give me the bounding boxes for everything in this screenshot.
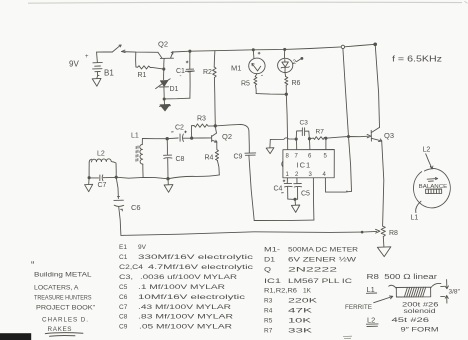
svg-text:L2: L2	[97, 151, 105, 158]
svg-text:D1: D1	[170, 86, 179, 93]
label arrow D2	[296, 57, 303, 61]
svg-text:-: -	[180, 74, 182, 80]
svg-text:1: 1	[286, 172, 290, 178]
book reference text	[31, 260, 95, 333]
svg-text:33K: 33K	[288, 328, 313, 335]
svg-text:C3,: C3,	[119, 274, 133, 281]
node R2/R3/collector junction	[214, 125, 216, 127]
wire R5 bottom to R6 bottom	[256, 93, 286, 96]
capacitor C7	[89, 175, 116, 181]
wire Vcc junction down to pin4 loop	[343, 49, 352, 192]
svg-text:330Mf/16V electrolytic: 330Mf/16V electrolytic	[138, 254, 254, 261]
svg-text:Building METAL: Building METAL	[34, 272, 92, 279]
resistor R6	[285, 73, 288, 95]
svg-text:“: “	[31, 260, 34, 271]
node Vcc/Q3 base wire junction	[347, 135, 349, 137]
node C2/R3/base junction	[191, 137, 193, 139]
node C1 top	[189, 50, 191, 52]
svg-text:47K: 47K	[288, 308, 313, 315]
wire pin5 riser	[325, 138, 327, 149]
wire R1 tap down	[135, 52, 137, 67]
svg-text:220K: 220K	[288, 298, 318, 305]
svg-text:10K: 10K	[288, 318, 312, 325]
svg-text:FERRITE: FERRITE	[345, 304, 372, 311]
svg-text:C6: C6	[119, 294, 128, 301]
wire junction up to R3	[190, 126, 192, 138]
svg-text:L2: L2	[367, 316, 375, 325]
svg-text:R4: R4	[264, 308, 273, 315]
svg-text:E1: E1	[119, 244, 127, 251]
svg-text:L1: L1	[411, 215, 419, 222]
capacitor C2	[167, 131, 192, 142]
ground below D1	[159, 99, 170, 111]
svg-text:LOCATERS, A: LOCATERS, A	[34, 285, 79, 292]
svg-text:C2,C4: C2,C4	[119, 264, 143, 271]
svg-text:C9: C9	[119, 324, 128, 331]
wire C6 to R8 wiper (long)	[121, 232, 362, 236]
svg-text:6V ZENER ½W: 6V ZENER ½W	[288, 256, 357, 264]
ground at pin 7	[266, 139, 274, 153]
zener D2 in circle	[278, 49, 293, 72]
svg-text:IC1: IC1	[297, 161, 312, 170]
scan artifact bottom smudge	[343, 336, 352, 338]
svg-text:9″ FORM: 9″ FORM	[401, 327, 439, 334]
svg-text:Q3: Q3	[384, 131, 394, 140]
parts list capacitors	[119, 244, 254, 331]
wire battery to switch	[97, 51, 113, 53]
wire C9 bottom to pin3	[254, 219, 314, 222]
capacitor C5	[294, 178, 302, 199]
node D2 top rail	[284, 48, 286, 50]
wire R8 to ground	[382, 237, 385, 247]
svg-text:.43 Mf/100V MYLAR: .43 Mf/100V MYLAR	[138, 304, 231, 311]
meter M1	[249, 50, 265, 76]
svg-text:9V: 9V	[138, 244, 147, 251]
svg-text:R1: R1	[138, 72, 147, 79]
ferrite core dashes for L1	[136, 146, 138, 163]
zener diode D1	[156, 79, 171, 99]
node R1/D1/base junction	[163, 68, 165, 70]
wire oscillator bottom rail	[116, 175, 219, 179]
wire junction to C9 bend	[215, 124, 249, 152]
svg-text:B1: B1	[104, 69, 114, 78]
wire rail to far right node	[345, 44, 376, 47]
inductor L1	[140, 139, 143, 178]
node C4/C5 ground junction	[294, 198, 296, 200]
capacitor C9	[245, 153, 256, 221]
underline L1 note	[366, 292, 376, 294]
underline RAKES	[45, 333, 83, 337]
svg-text:solenoid: solenoid	[404, 308, 436, 315]
svg-text:C5: C5	[301, 191, 310, 198]
node L2 right / C6 junction	[115, 176, 117, 178]
svg-text:R6: R6	[292, 80, 301, 87]
svg-text:3/8″: 3/8″	[449, 289, 461, 296]
wire L1 top to C2	[142, 138, 167, 140]
svg-text:1K: 1K	[303, 288, 312, 295]
node Vcc rail open junction	[341, 45, 344, 48]
svg-text:R7: R7	[264, 328, 273, 335]
wire pin7 riser	[295, 139, 298, 150]
svg-text:.1 Mf/100V MYLAR: .1 Mf/100V MYLAR	[138, 284, 225, 291]
svg-text:C7: C7	[119, 304, 128, 311]
svg-text:+: +	[85, 54, 89, 60]
inductor L2	[89, 159, 116, 178]
wire base node to D1	[163, 69, 165, 80]
svg-text:LM567 PLL IC: LM567 PLL IC	[288, 278, 352, 285]
capacitor C4	[282, 178, 293, 199]
R8 wiper arrowhead	[376, 229, 380, 233]
label arrow L2 to balance circle	[426, 154, 433, 169]
svg-text:C8: C8	[176, 156, 185, 163]
svg-text:10Mf/16V electrolytic: 10Mf/16V electrolytic	[138, 294, 246, 301]
svg-text:R4: R4	[205, 155, 214, 162]
svg-text:M1-: M1-	[264, 247, 280, 254]
svg-text:C3: C3	[300, 120, 309, 127]
wire Q2 emitter to R4	[216, 142, 218, 150]
wire Q3 collector feed	[375, 44, 379, 127]
svg-text:C4: C4	[274, 186, 283, 193]
svg-text:R8: R8	[389, 230, 398, 237]
svg-text:7: 7	[295, 154, 299, 160]
resistor R3	[192, 124, 216, 127]
wire pin5 node to Q3 base	[326, 136, 368, 138]
node pin6 junction	[308, 138, 310, 140]
resistor R2	[213, 51, 217, 126]
svg-text:C7: C7	[98, 182, 107, 189]
svg-text:L1: L1	[131, 133, 139, 140]
label arrow L1 from balance circle	[416, 201, 421, 212]
svg-text:L2: L2	[423, 147, 431, 154]
wire R1 to base node	[152, 67, 164, 69]
transistor Q2 (regulator)	[158, 52, 174, 70]
svg-text:3: 3	[309, 172, 313, 178]
svg-text:.0036 uf/100V MYLAR: .0036 uf/100V MYLAR	[140, 274, 237, 281]
ground below C8	[164, 179, 173, 193]
node Q3 feed junction	[374, 43, 377, 46]
svg-text:500MA DC METER: 500MA DC METER	[288, 247, 358, 254]
svg-text:8: 8	[286, 154, 290, 160]
potentiometer R8	[381, 226, 385, 237]
svg-text:TREASURE HUNTERS: TREASURE HUNTERS	[34, 295, 92, 302]
svg-text:45t #26: 45t #26	[392, 317, 430, 324]
node pin5 junction	[325, 137, 327, 139]
wire C4/C5 bottoms joined	[288, 198, 298, 200]
wire Q3 emitter down to R8	[382, 141, 384, 226]
resistor R1	[136, 66, 152, 69]
ferrite pointer arrow	[374, 296, 393, 303]
svg-text:2: 2	[295, 172, 299, 178]
svg-text:R5: R5	[241, 81, 250, 88]
svg-text:D1: D1	[264, 257, 276, 264]
svg-text:R8 500 Ω linear: R8 500 Ω linear	[367, 272, 438, 281]
svg-text:R3: R3	[197, 116, 206, 123]
underline L2 note	[366, 324, 378, 327]
wire pin4 loop bottom	[326, 191, 352, 192]
resistor R7	[309, 137, 326, 140]
svg-text:6: 6	[308, 154, 312, 160]
svg-text:C5: C5	[119, 284, 128, 291]
battery B1	[93, 52, 103, 76]
dimension marks 3/8 inch	[441, 280, 449, 304]
svg-text:BALANCE: BALANCE	[419, 184, 448, 190]
node M1 top rail	[252, 49, 254, 51]
svg-text:9V: 9V	[69, 60, 79, 69]
node pin7 junction	[295, 138, 297, 140]
svg-text:R3: R3	[264, 298, 273, 305]
svg-text:.83 Mf/100V MYLAR: .83 Mf/100V MYLAR	[138, 314, 233, 321]
ground below R8	[377, 247, 391, 257]
wire pin4 riser	[324, 178, 326, 192]
wire ground to pin7 with jog over pin8 riser	[270, 138, 296, 140]
svg-text:.05 Mf/100V MYLAR: .05 Mf/100V MYLAR	[139, 324, 232, 331]
capacitor C6	[114, 177, 124, 235]
svg-text:2N2222: 2N2222	[288, 267, 338, 274]
scan artifact top edge	[28, 1, 462, 4]
node C8 bottom junction	[167, 178, 169, 180]
svg-text:5: 5	[324, 154, 328, 160]
wire base to Q2	[192, 137, 212, 139]
wire pin6 riser	[308, 139, 311, 150]
svg-text:L1: L1	[367, 285, 375, 294]
svg-text:R7: R7	[316, 129, 325, 136]
wire meter node down to IC pin 8	[286, 94, 287, 137]
svg-text:IC1: IC1	[264, 278, 282, 285]
svg-text:Q2: Q2	[222, 132, 232, 141]
transistor Q3	[371, 127, 382, 141]
svg-text:C6: C6	[131, 203, 141, 212]
parts list semiconductors	[264, 247, 358, 335]
svg-text:R1,R2,R6: R1,R2,R6	[264, 288, 297, 295]
balance slider hatch	[426, 189, 442, 194]
svg-text:C8: C8	[119, 314, 128, 321]
wire C1 bottom to D1 node	[164, 97, 190, 100]
capacitor C3	[296, 128, 309, 139]
svg-text:R5: R5	[264, 318, 273, 325]
resistor R5	[254, 74, 257, 94]
svg-text:f = 6.5KHz: f = 6.5KHz	[392, 55, 442, 64]
node D1/C1 bottom junction	[163, 98, 165, 100]
svg-text:Q2: Q2	[158, 40, 168, 49]
svg-text:4: 4	[323, 172, 327, 178]
ground below C4/C5	[291, 199, 299, 212]
node L1/C8/C2 junction	[166, 138, 168, 140]
resistor R4	[215, 150, 219, 175]
node L2 left / C7 left junction	[88, 177, 90, 179]
Q3 base arrowhead	[367, 134, 371, 137]
svg-text:C2: C2	[175, 125, 184, 132]
svg-text:CHARLES D.: CHARLES D.	[42, 317, 88, 324]
svg-text:RAKES: RAKES	[48, 326, 72, 333]
top rail from Q2 emitter to right	[173, 47, 341, 52]
solenoid L1 drawing	[389, 283, 441, 297]
svg-text:C1: C1	[119, 254, 128, 261]
scan artifact black bar bottom-left	[0, 333, 31, 340]
svg-text:C9: C9	[234, 154, 243, 161]
svg-text:PROJECT BOOK”: PROJECT BOOK”	[36, 305, 95, 312]
svg-text:2: 2	[293, 59, 297, 66]
node R5/R6 bottom junction	[285, 93, 287, 95]
capacitor C8	[164, 139, 172, 179]
balance head circle	[413, 168, 450, 207]
capacitor C1	[185, 51, 194, 98]
svg-text:M1: M1	[231, 64, 241, 73]
ground below battery	[92, 76, 101, 87]
svg-text:4.7Mf/16V electrolytic: 4.7Mf/16V electrolytic	[148, 264, 254, 271]
IC U1 LM567 box	[282, 150, 335, 178]
svg-text:Q: Q	[264, 267, 271, 274]
ground below L2	[85, 178, 93, 192]
transistor Q2 (oscillator)	[212, 126, 217, 142]
svg-text:R2: R2	[203, 69, 212, 76]
switch S1	[112, 45, 125, 53]
wire switch to Q2 collector	[122, 51, 159, 54]
